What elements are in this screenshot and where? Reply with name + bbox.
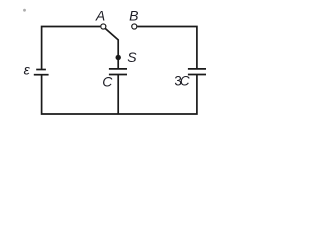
svg-text:ε: ε	[24, 61, 31, 77]
svg-text:S: S	[127, 49, 137, 65]
svg-text:3C: 3C	[174, 73, 190, 88]
svg-text:A: A	[95, 8, 105, 24]
svg-text:B: B	[129, 8, 138, 24]
svg-text:C: C	[102, 74, 113, 90]
